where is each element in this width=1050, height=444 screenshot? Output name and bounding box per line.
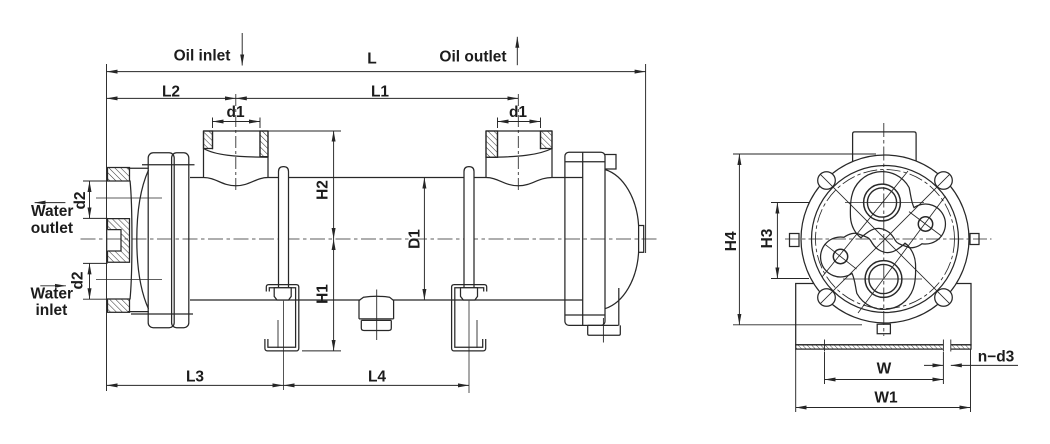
- vertical centreline: [883, 123, 885, 336]
- rear head flange: [565, 152, 605, 325]
- svg-text:W1: W1: [874, 390, 898, 407]
- water inlet flow arrow: [40, 285, 66, 287]
- shell body bottom edge (gap at drain plug): [190, 299, 583, 301]
- W extension lines: [825, 352, 944, 384]
- diagonal centreline TR-BL: [820, 174, 949, 303]
- dimension d2 upper: [89, 181, 91, 218]
- bottom tube sheet boss inner: [869, 264, 898, 293]
- support 1 bracket inner profile: [268, 288, 296, 347]
- partition notch in middle block: [107, 230, 121, 251]
- svg-text:d1: d1: [227, 104, 245, 121]
- svg-text:outlet: outlet: [31, 220, 73, 237]
- dimension d1 right: extension lines: [498, 118, 541, 129]
- svg-text:L: L: [367, 51, 376, 68]
- svg-text:Oil outlet: Oil outlet: [439, 49, 506, 66]
- bonnet inner wall: [130, 181, 132, 300]
- nozzle outer walls down to shell: [204, 131, 269, 178]
- H2 top extension line: [268, 130, 341, 132]
- svg-text:H1: H1: [315, 284, 332, 304]
- dimension W: [825, 379, 944, 381]
- rear head centre boss: [639, 226, 644, 253]
- flange step circle: [812, 166, 959, 313]
- support 2 hidden rod leg below shell: [476, 320, 478, 348]
- dimension d1 left line: [213, 121, 261, 123]
- dimension H4: [738, 154, 740, 325]
- H4 bottom extension line: [733, 324, 862, 326]
- support 2 U-bolt rod: [464, 167, 474, 293]
- H3 bottom extension line: [771, 278, 809, 280]
- dimension d1 right line: [498, 121, 541, 123]
- top tube sheet boss inner: [867, 188, 896, 217]
- oil inlet flow arrow: [241, 33, 243, 66]
- support 1 extension line: [283, 301, 285, 390]
- dimension L2: [107, 97, 236, 99]
- bolt circle (dash-dot): [816, 170, 955, 309]
- svg-text:d2: d2: [72, 191, 89, 209]
- water inlet port centreline: [96, 279, 162, 281]
- top tube horizontal tick: [845, 202, 924, 204]
- shell flange rounded rectangle: [172, 153, 189, 328]
- horizontal centreline: [785, 238, 992, 240]
- main horizontal centreline: [81, 238, 657, 240]
- right extension line: [645, 64, 647, 253]
- W1 extension lines: [796, 349, 971, 412]
- dimension d2 upper ext lines: [83, 181, 108, 218]
- nozzle flange right hatched block: [541, 131, 553, 149]
- side tab left: [790, 234, 800, 247]
- nozzle socket curve: [204, 149, 269, 158]
- dimension D1: [423, 178, 425, 301]
- corner bolt lug bottom-right: [935, 289, 953, 307]
- bottom tube sheet boss outer: [865, 261, 902, 298]
- bolt slot edge ticks: [825, 340, 951, 352]
- corner bolt lug bottom-left: [818, 289, 836, 307]
- svg-text:L2: L2: [162, 84, 180, 101]
- base plate bolt slot (white): [943, 344, 950, 350]
- side tab right: [970, 234, 979, 245]
- bonnet dished inner wall arc: [137, 170, 149, 309]
- svg-text:Water: Water: [31, 286, 74, 303]
- rear head bottom lug: [588, 325, 621, 335]
- dimension W1: [796, 407, 971, 409]
- main flange outer circle: [801, 155, 969, 323]
- support 1 bracket outer profile: [265, 285, 299, 351]
- nozzle flange left hatched block: [204, 131, 213, 149]
- dimension L1: [236, 97, 519, 99]
- svg-text:n−d3: n−d3: [978, 349, 1015, 366]
- tube diagonal centreline B: [858, 196, 946, 313]
- support 2 bracket outer profile: [452, 285, 487, 351]
- support 2 nut: [461, 288, 478, 300]
- rear flange bottom band line: [565, 314, 605, 316]
- nozzle flange top line: [486, 130, 552, 132]
- bottom tab: [877, 324, 890, 334]
- oil nozzle stub (end-on): [853, 132, 917, 162]
- left extension line: [106, 64, 108, 391]
- rear dished head lower arc: [605, 252, 639, 308]
- oil outlet nozzle: [486, 131, 552, 178]
- support base plate hatched strip: [796, 345, 971, 349]
- svg-text:inlet: inlet: [35, 302, 67, 319]
- bonnet casting bottom edge: [128, 311, 149, 313]
- bonnet top witness line: [142, 164, 195, 166]
- small bolt circle right: [918, 217, 932, 231]
- H3 top extension line: [771, 202, 809, 204]
- H4 top extension line: [733, 153, 876, 155]
- dimension d2 lower: [89, 263, 91, 299]
- svg-text:L4: L4: [368, 369, 386, 386]
- corner bolt lug top-right: [935, 172, 953, 190]
- bonnet casting top edge: [128, 167, 149, 169]
- dimension L3: [107, 384, 284, 386]
- rear head top lug: [605, 155, 616, 170]
- rear head bottom lug centreline: [602, 318, 604, 343]
- nozzle flange top line: [204, 130, 269, 132]
- water box flange hatched block top: [108, 168, 130, 182]
- svg-text:H3: H3: [759, 228, 776, 248]
- oil inlet nozzle centreline: [235, 94, 237, 190]
- pass partition rib upper: [850, 172, 945, 248]
- svg-text:H4: H4: [723, 231, 740, 251]
- support 2 extension line: [468, 301, 470, 393]
- support pedestal block: [796, 284, 971, 345]
- nozzle flange left hatched block: [486, 131, 498, 157]
- dimension L: [107, 71, 646, 73]
- bonnet flange rounded rectangle: [148, 153, 174, 328]
- nozzle flange right hatched block: [260, 131, 268, 157]
- dimension L4: [284, 384, 470, 386]
- svg-text:Oil inlet: Oil inlet: [174, 48, 231, 65]
- dimension H3: [776, 203, 778, 279]
- rear head bottom boss wall: [618, 288, 620, 325]
- support 1 U-bolt rod: [279, 167, 289, 293]
- water box flange hatched block bottom: [108, 299, 130, 312]
- dimension d1 left: extension lines: [213, 118, 261, 129]
- dimension H2: [333, 131, 335, 239]
- pass partition rib lower (rotated copy): [821, 233, 916, 309]
- rear flange inner vertical: [582, 152, 584, 325]
- small circle left perpendicular tick: [825, 244, 857, 269]
- shell body top edge with nozzle saddle dips: [190, 178, 583, 186]
- top tube sheet boss outer: [864, 184, 901, 221]
- n-d3 leader arrows: [924, 364, 943, 366]
- dimension d2 lower ext lines: [83, 263, 108, 299]
- nozzle socket curve: [486, 149, 552, 158]
- tube diagonal centreline A: [822, 171, 908, 277]
- support 1 nut: [274, 288, 291, 300]
- water outlet flow arrow: [35, 202, 66, 204]
- dimension H1: [333, 239, 335, 351]
- svg-text:L3: L3: [186, 369, 204, 386]
- rear flange top band line: [565, 161, 605, 163]
- small circle right perpendicular tick: [909, 212, 942, 237]
- H1 bottom extension line: [302, 350, 341, 352]
- support 2 bracket inner profile: [455, 288, 484, 347]
- oil outlet nozzle centreline: [517, 94, 519, 190]
- oil outlet flow arrow: [516, 37, 518, 65]
- water outlet port centreline: [96, 197, 162, 199]
- diagonal centreline TL-BR: [820, 174, 949, 303]
- support 1 hidden rod leg below shell: [277, 320, 279, 348]
- nozzle bore walls: [213, 131, 261, 157]
- svg-text:H2: H2: [315, 180, 332, 200]
- water box flange hatched block middle with partition notch: [108, 219, 130, 263]
- svg-text:Water: Water: [31, 203, 74, 220]
- svg-text:W: W: [877, 361, 892, 378]
- small bolt circle left: [833, 249, 847, 263]
- svg-text:L1: L1: [371, 84, 389, 101]
- bonnet bottom witness line: [131, 313, 193, 315]
- bottom tube horizontal tick: [843, 278, 922, 280]
- svg-text:D1: D1: [407, 229, 424, 249]
- drain plug: [359, 290, 394, 341]
- rear dished head upper arc: [605, 170, 639, 226]
- corner bolt lug top-left: [818, 172, 836, 190]
- svg-text:d1: d1: [509, 104, 527, 121]
- oil inlet nozzle: [204, 131, 269, 178]
- nozzle outer walls down to shell: [486, 131, 552, 178]
- nozzle bore walls: [498, 131, 541, 157]
